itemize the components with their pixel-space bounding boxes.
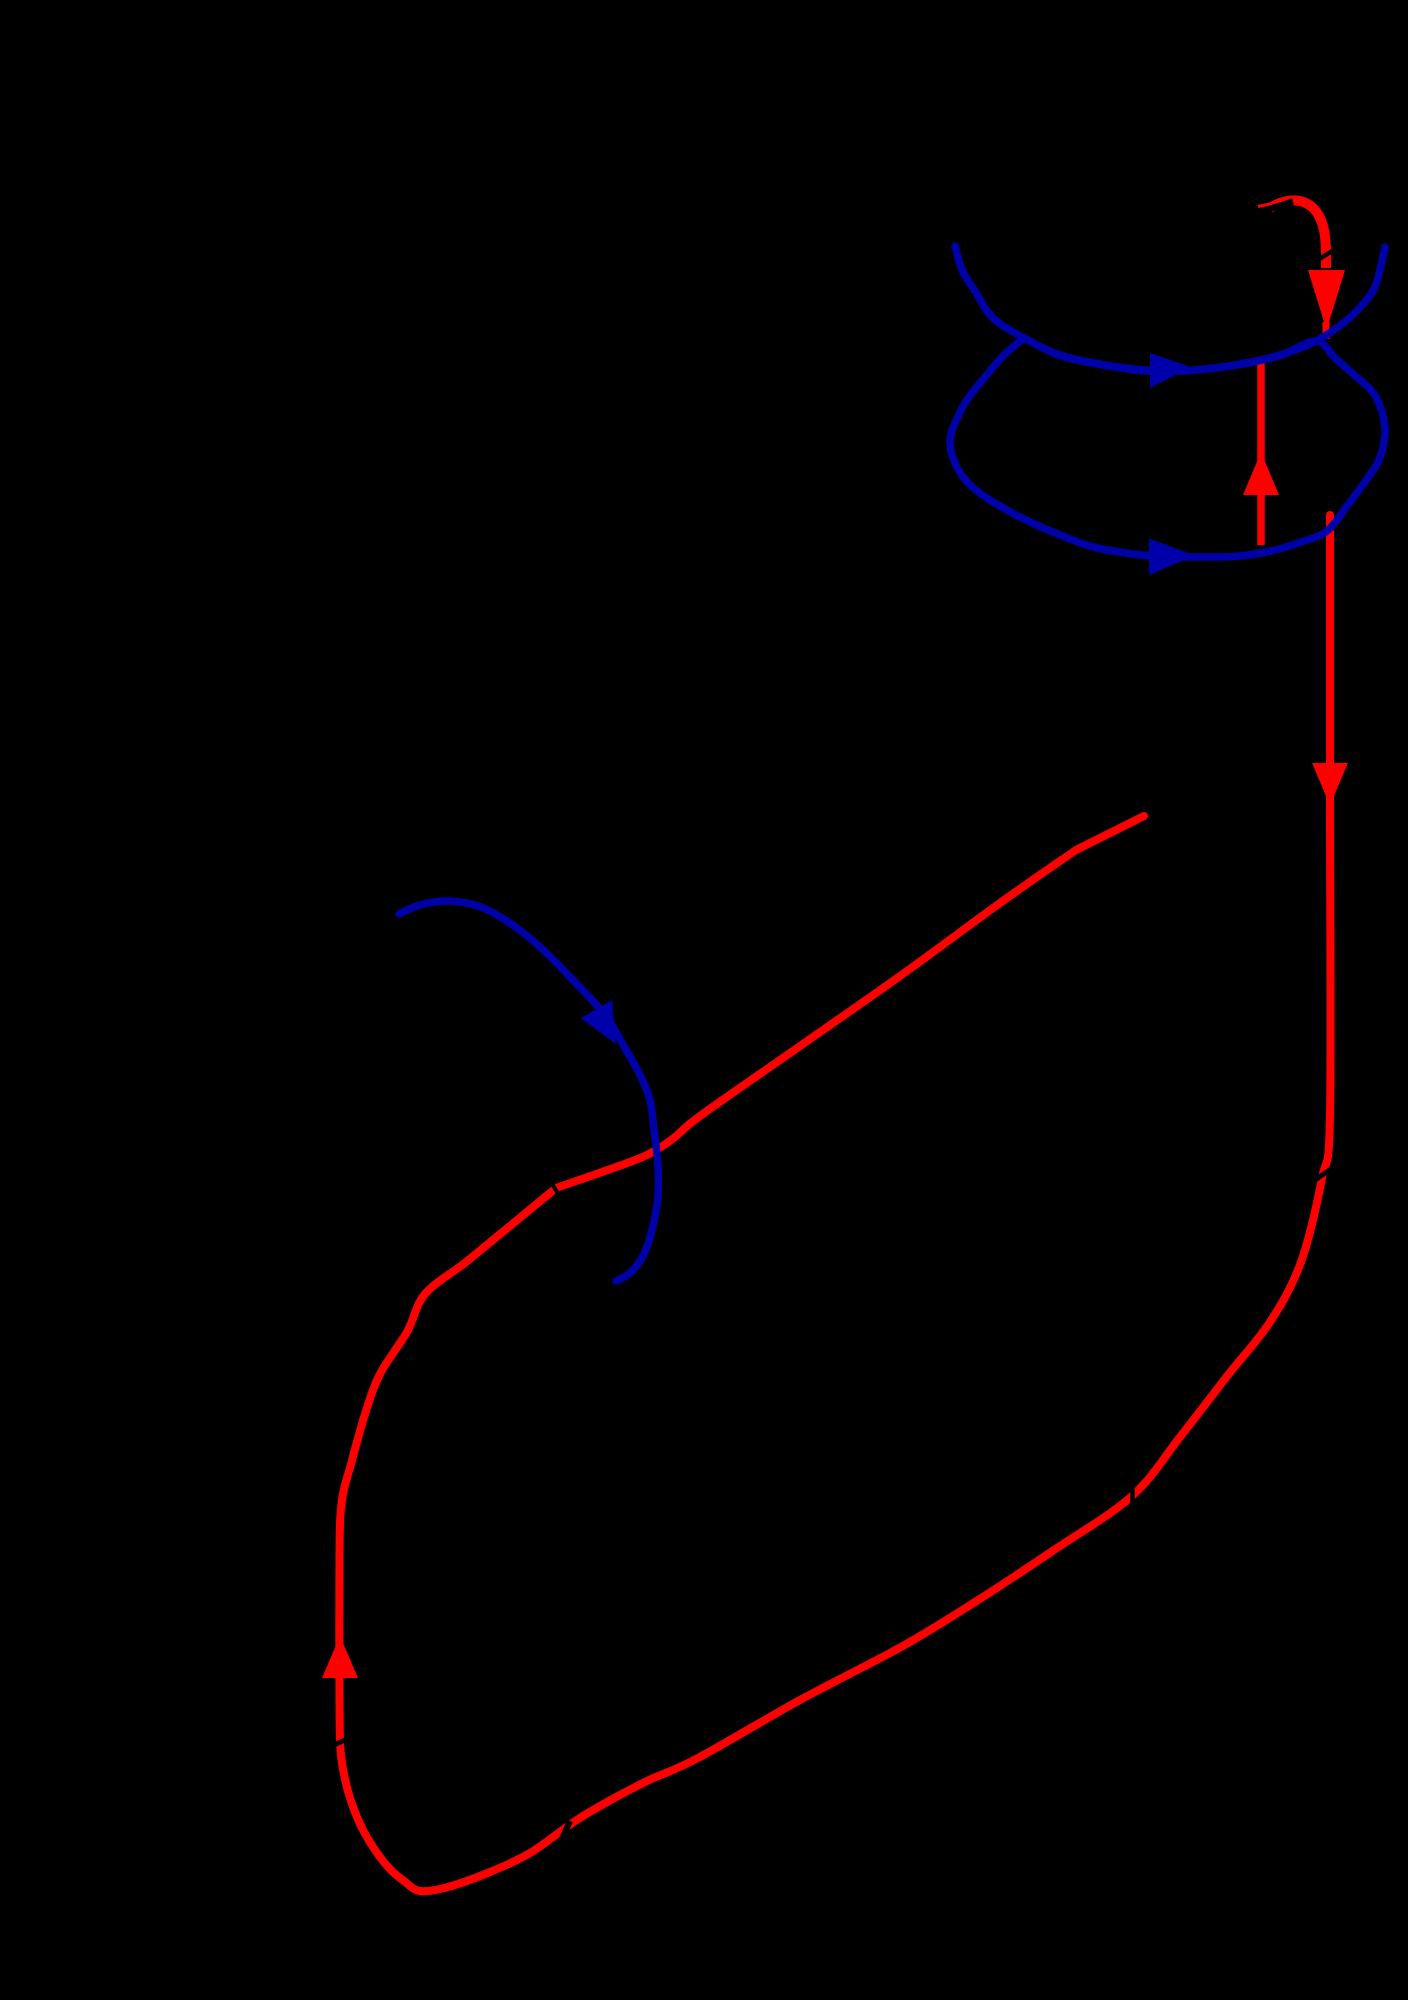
black occluder slash over bottom-left vertical — [330, 1737, 351, 1747]
black occluder slash over bottom diagonal — [560, 1821, 570, 1843]
red hook start sliver fragment — [1258, 204, 1270, 207]
red down arrowhead on right vertical — [1312, 763, 1348, 805]
wire red main field-line loop — [339, 515, 1330, 1891]
blue arrowhead on coil bottom (lower) — [1149, 539, 1195, 576]
black occluder slash over hook start — [1252, 202, 1293, 215]
blue twist arc (middle-left) — [399, 901, 658, 1281]
wire red stub under coil band (hook continuation) — [1323, 322, 1330, 339]
wire red inner vertical field line inside coil — [1257, 360, 1265, 545]
black occluder slash over hook mid — [1318, 251, 1334, 261]
wire red upper diagonal (under twist arc) — [556, 816, 1144, 1188]
black occluder slash over diagonal kink — [550, 1181, 561, 1198]
blue arrowhead on twist arc — [581, 1000, 616, 1044]
blue coil turn 2 (lower loop) — [950, 338, 1385, 557]
black occluder slash over right sweep — [1312, 1169, 1331, 1182]
red up arrowhead on bottom-left vertical — [322, 1636, 358, 1678]
blue coil turn 1 (upper smile arc) — [955, 246, 1385, 371]
black occluder slash over sweep near kink 1132 — [1130, 1487, 1135, 1509]
red hook arrowhead (down) — [1308, 270, 1345, 330]
blue arrowhead on coil band (upper) — [1150, 353, 1191, 388]
red up arrowhead on inner vertical — [1243, 452, 1279, 495]
